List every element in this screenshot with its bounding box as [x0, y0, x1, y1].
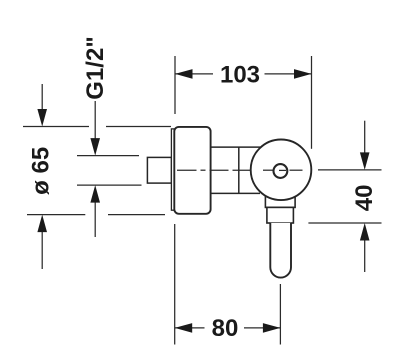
svg-text:G1/2": G1/2" [82, 36, 109, 99]
dimension G1/2" [77, 101, 142, 237]
svg-text:ø 65: ø 65 [28, 147, 55, 195]
svg-text:80: 80 [212, 315, 239, 342]
dimension 103 [175, 56, 312, 149]
wall supply stub (G1/2 connection) [147, 157, 171, 183]
horizontal centerline [177, 169, 303, 171]
valve body (between escutcheon and round body) [211, 147, 261, 193]
lever base upper block [265, 192, 295, 207]
dimension 80 [175, 224, 281, 345]
lever base lower block [267, 207, 294, 223]
svg-text:40: 40 [351, 185, 378, 212]
dimension 40 [308, 121, 381, 272]
escutcheon flange band [171, 129, 174, 210]
lever handle [270, 223, 291, 278]
cartridge inner circle [274, 164, 288, 178]
dimension ø65 [23, 84, 171, 269]
round mixer body circle [251, 140, 312, 201]
svg-text:103: 103 [220, 61, 260, 88]
escutcheon (rosette) [174, 127, 210, 214]
